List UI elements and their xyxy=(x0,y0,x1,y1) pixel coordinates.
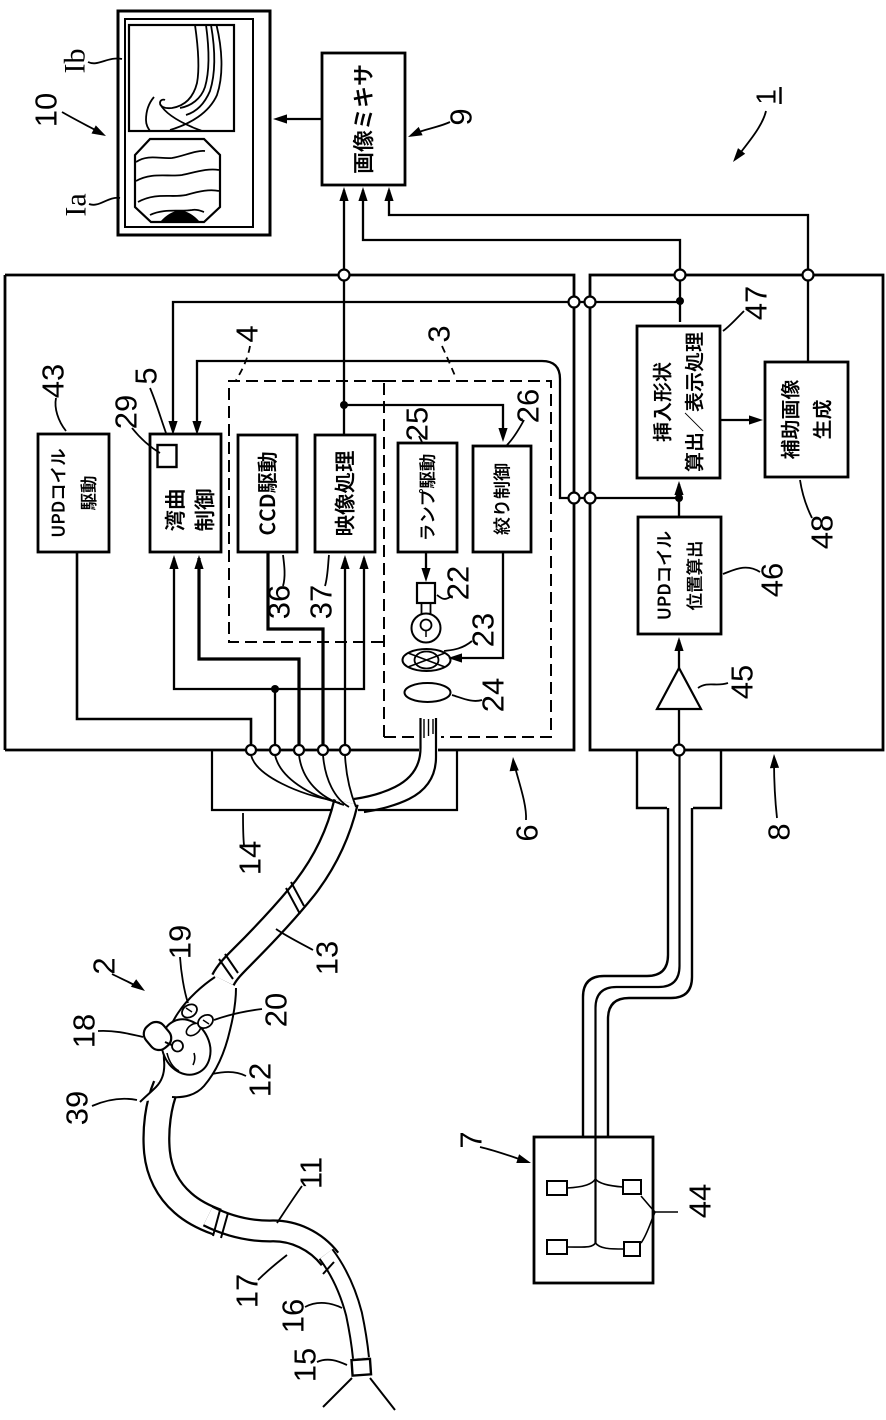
connector terminals xyxy=(246,745,256,755)
leader 15 xyxy=(317,1360,347,1365)
insertion shape text xyxy=(653,333,704,472)
shape detection unit 8 frame (right box) xyxy=(590,275,883,750)
arrow 7 xyxy=(480,1147,525,1161)
leader 47 xyxy=(723,311,744,331)
UPD position calc box 46 xyxy=(638,517,721,634)
svg-text:8: 8 xyxy=(762,823,797,840)
svg-text:7: 7 xyxy=(454,1131,489,1148)
svg-text:Ia: Ia xyxy=(60,193,93,216)
view rays from distal end xyxy=(323,1378,395,1410)
lamp drive box 25 xyxy=(398,443,457,552)
svg-text:3: 3 xyxy=(422,325,457,342)
video processor unit frame (left box) xyxy=(5,275,574,750)
UPD coil drive box 43 xyxy=(38,434,109,552)
leader 43 xyxy=(55,398,66,431)
svg-text:22: 22 xyxy=(441,566,476,600)
svg-text:29: 29 xyxy=(109,395,144,429)
wire mixer input 3 (from auxiliary image 48) xyxy=(389,190,808,362)
svg-text:24: 24 xyxy=(476,678,511,712)
control lever 18 xyxy=(140,1018,176,1054)
arrow 10 xyxy=(62,112,99,132)
svg-text:20: 20 xyxy=(259,993,294,1027)
CCD drive text xyxy=(257,453,277,535)
operation section 12 outline xyxy=(140,977,215,1102)
switch 20 xyxy=(196,1012,216,1031)
svg-text:45: 45 xyxy=(725,665,760,699)
leader 5 xyxy=(150,388,166,433)
svg-text:37: 37 xyxy=(304,585,339,619)
leader Ia xyxy=(89,198,120,205)
cable connector on box 8 xyxy=(637,750,721,808)
leader 46 xyxy=(723,568,760,574)
universal cord 13 (to connector) xyxy=(223,802,346,980)
svg-text:43: 43 xyxy=(36,364,71,398)
cord joint rings xyxy=(286,882,304,914)
CCD drive box 36 xyxy=(238,435,297,552)
leader 23 xyxy=(444,641,472,651)
leader 13 xyxy=(276,929,313,950)
auxiliary image text xyxy=(781,380,832,459)
leader 36 xyxy=(283,555,285,586)
wire lamp drive to lamp xyxy=(425,552,427,577)
image mixer text xyxy=(353,66,374,173)
video processing text xyxy=(335,451,355,535)
svg-text:16: 16 xyxy=(276,1299,311,1333)
wire scope to bend ctrl / video proc xyxy=(174,558,364,744)
leader 24 xyxy=(452,695,482,701)
UPD position text xyxy=(656,532,702,619)
svg-text:Ib: Ib xyxy=(59,49,92,74)
lamp drive text xyxy=(419,455,435,539)
wire scope to video processing xyxy=(344,558,346,744)
condenser lens 24 xyxy=(405,683,451,702)
svg-text:44: 44 xyxy=(683,1184,718,1218)
leader 9 xyxy=(414,122,450,134)
svg-text:19: 19 xyxy=(163,925,198,959)
leader 18 xyxy=(98,1031,143,1037)
svg-text:26: 26 xyxy=(511,389,546,423)
distal end 15 xyxy=(351,1359,371,1376)
video unit dashed frame 4 xyxy=(229,381,384,642)
leader 19 xyxy=(180,957,188,1003)
wire 47 to bending control (y302) xyxy=(173,302,680,429)
wire mixer input 2 (from insertion shape 47) xyxy=(363,190,680,322)
angulation knob on 12 xyxy=(153,1011,220,1083)
svg-text:14: 14 xyxy=(233,841,268,875)
arrow 2 xyxy=(112,974,138,987)
svg-text:25: 25 xyxy=(400,407,435,441)
arrow 6 xyxy=(514,763,526,820)
leader 12 xyxy=(212,1072,246,1076)
leader 26 xyxy=(507,420,524,445)
leader 11 xyxy=(277,1186,302,1223)
wire mixer input 1 (from video processing 37) xyxy=(343,190,345,435)
leader 16 xyxy=(305,1303,342,1308)
svg-text:1: 1 xyxy=(751,89,782,105)
insertion shape calc/display box 47 xyxy=(637,326,720,478)
svg-text:4: 4 xyxy=(230,325,265,342)
aperture control box 26 xyxy=(473,446,531,552)
operation section 12 body (fill) xyxy=(140,977,236,1102)
leader 17 xyxy=(258,1255,287,1280)
monitor 10 outer frame xyxy=(118,11,270,235)
aperture 23 xyxy=(403,649,451,671)
leader 44b xyxy=(641,1212,655,1243)
svg-text:5: 5 xyxy=(129,367,164,384)
image mixer box 9 xyxy=(322,53,405,185)
leader 37 xyxy=(325,555,329,586)
leader 3 xyxy=(442,346,456,378)
leader 20 xyxy=(214,1009,262,1020)
svg-text:10: 10 xyxy=(29,93,64,127)
shape-display screen Ib xyxy=(129,25,234,131)
scope-shape curve in screen Ib xyxy=(170,25,221,130)
leader 4 xyxy=(236,346,250,380)
svg-text:39: 39 xyxy=(60,1091,95,1125)
amplifier 45 xyxy=(657,668,701,709)
arrow mixer to monitor xyxy=(284,118,322,120)
sense coils 44 xyxy=(547,1181,567,1195)
svg-text:11: 11 xyxy=(294,1157,329,1189)
switch 19 xyxy=(180,1002,200,1021)
wire bending loop (y361-498) xyxy=(197,361,679,498)
svg-text:46: 46 xyxy=(755,563,790,597)
wire aperture control to aperture xyxy=(452,552,503,658)
connector square 29 xyxy=(158,445,177,467)
lamp block 22 xyxy=(417,583,435,603)
terminal on box 8 xyxy=(674,745,685,756)
coil unit box 7 xyxy=(534,1137,653,1283)
auxiliary image box 48 xyxy=(765,362,848,477)
leader 22 xyxy=(437,595,450,599)
endoscope-image screen Ia (octagon) xyxy=(135,139,220,222)
leader 44a xyxy=(641,1196,678,1212)
leader 45 xyxy=(698,683,728,688)
leader 29 xyxy=(132,428,160,453)
leader 39 xyxy=(92,1099,137,1106)
wire branch to aperture control xyxy=(344,405,503,436)
video processing box 37 xyxy=(315,435,375,552)
dark lumen in screen Ia xyxy=(161,212,199,223)
wire 46 to 47 xyxy=(678,484,680,517)
svg-text:12: 12 xyxy=(243,1063,278,1097)
leader 25 xyxy=(419,436,422,442)
leader 14 xyxy=(243,813,244,845)
wire CCD drive to scope xyxy=(268,552,323,744)
lamp 23 bulb xyxy=(422,603,431,614)
arrow 8 xyxy=(774,760,777,818)
fan-in wires in connector xyxy=(251,755,336,801)
svg-text:6: 6 xyxy=(510,824,545,841)
wire bend ctrl 2 xyxy=(199,558,299,744)
svg-text:2: 2 xyxy=(87,957,122,974)
monitor 10 inner frame xyxy=(125,19,253,227)
aperture control text xyxy=(493,464,510,535)
svg-text:13: 13 xyxy=(310,941,345,975)
leader Ib xyxy=(88,58,122,63)
arrow 47 to 48 xyxy=(720,419,757,421)
coil unit cable xyxy=(583,808,668,1137)
UPD coil drive text xyxy=(51,449,97,536)
wire 43 to connector xyxy=(77,552,251,744)
insertion tube 11 xyxy=(156,1086,217,1222)
arrow 1 xyxy=(741,111,766,152)
leader 48 xyxy=(800,480,812,518)
svg-text:48: 48 xyxy=(805,515,840,549)
light guide entrance xyxy=(354,718,421,799)
wavy folds in screen Ia xyxy=(136,151,205,162)
svg-text:47: 47 xyxy=(739,286,774,320)
tube joint rings xyxy=(213,1210,228,1238)
bending control text xyxy=(165,490,215,531)
svg-text:18: 18 xyxy=(67,1014,102,1048)
svg-text:15: 15 xyxy=(288,1348,323,1382)
light source dashed frame 3 xyxy=(384,381,551,737)
connector box 14 xyxy=(212,750,457,810)
bending control box 5 xyxy=(150,434,221,552)
